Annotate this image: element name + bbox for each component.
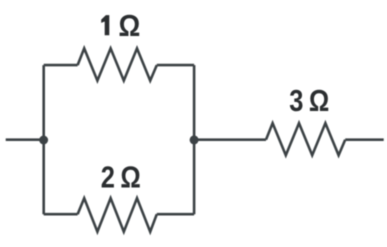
wire: left input lead	[6, 138, 44, 141]
node B (right junction dot)	[190, 135, 199, 144]
resistor R2 (2 Ω)	[78, 198, 157, 232]
label: 1 Ω value of R1	[101, 15, 109, 35]
wire: left vertical branch	[42, 65, 45, 214]
wire: right vertical branch	[193, 65, 196, 214]
wire: bottom-left horizontal to R2	[44, 213, 78, 216]
wire: top-left horizontal to R1	[44, 64, 78, 67]
node A (left junction dot)	[39, 136, 48, 145]
wire: right output lead	[345, 138, 384, 141]
resistor R3 (3 Ω)	[266, 123, 345, 155]
wire: bottom-right horizontal from R2	[157, 213, 194, 216]
svg-text:2 Ω: 2 Ω	[101, 160, 141, 195]
wire: top-right horizontal from R1	[157, 64, 194, 67]
svg-text:Ω: Ω	[118, 8, 140, 43]
svg-text:3 Ω: 3 Ω	[289, 83, 329, 118]
resistor R1 (1 Ω)	[78, 48, 157, 80]
wire: middle link from node B to R3	[194, 138, 266, 141]
